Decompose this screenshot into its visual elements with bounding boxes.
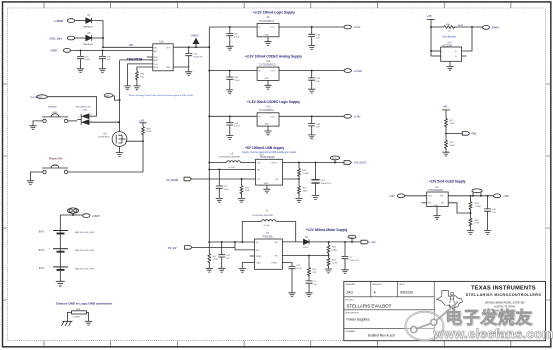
wire bbox=[92, 21, 104, 48]
svg-text:S-: S- bbox=[455, 56, 457, 58]
wire bbox=[60, 215, 73, 281]
diode D4 bbox=[303, 237, 309, 249]
svg-text:MBRA140: MBRA140 bbox=[83, 26, 94, 29]
node company text bbox=[466, 285, 542, 335]
svg-text:+1.8V: +1.8V bbox=[354, 115, 361, 119]
svg-text:100K: 100K bbox=[245, 190, 251, 192]
node PWR tp bbox=[348, 235, 356, 242]
wire bbox=[128, 64, 153, 86]
wire +5B net bbox=[102, 44, 153, 48]
diode D5A bbox=[82, 114, 96, 119]
battery BAT3 bbox=[39, 229, 94, 234]
svg-text:PS_SW: PS_SW bbox=[168, 247, 177, 250]
svg-text:SS12: SS12 bbox=[303, 247, 309, 249]
ground bbox=[239, 268, 246, 272]
ground bbox=[218, 268, 225, 272]
svg-text:1uF: 1uF bbox=[316, 127, 320, 129]
svg-text:1uF: 1uF bbox=[316, 37, 320, 39]
svg-text:TEXAS INSTRUMENTS: TEXAS INSTRUMENTS bbox=[471, 285, 536, 291]
diode D5B bbox=[81, 114, 93, 125]
svg-text:+VB: +VB bbox=[427, 15, 432, 18]
node title OLED bbox=[429, 179, 466, 183]
svg-text:100uF 6V: 100uF 6V bbox=[193, 56, 203, 58]
capacitor C56 bbox=[77, 50, 91, 68]
svg-text:TLV70033ADCQ: TLV70033ADCQ bbox=[259, 63, 276, 66]
svg-text:10uF 16V: 10uF 16V bbox=[350, 260, 360, 262]
ground bbox=[325, 269, 332, 273]
node title USB bbox=[245, 146, 284, 150]
wire bbox=[279, 70, 344, 72]
capacitor C59 bbox=[99, 50, 111, 68]
wire bbox=[267, 80, 269, 85]
ground bbox=[77, 69, 84, 73]
transistor Q3 bbox=[99, 132, 127, 147]
diode D8 bbox=[83, 33, 94, 46]
ground bbox=[442, 152, 449, 156]
svg-text:+15V 5mA OLED Supply: +15V 5mA OLED Supply bbox=[429, 179, 466, 183]
wire bbox=[449, 61, 451, 66]
ground bbox=[264, 131, 271, 135]
svg-text:SW: SW bbox=[428, 196, 431, 198]
node title bbox=[253, 11, 295, 15]
node SPKR out bbox=[482, 26, 500, 30]
node GND flag bbox=[104, 94, 119, 101]
wire bbox=[47, 97, 96, 117]
svg-text:+12V 350mA Motor Supply: +12V 350mA Motor Supply bbox=[306, 228, 348, 232]
ground bbox=[305, 293, 312, 297]
svg-text:+5B: +5B bbox=[129, 44, 134, 47]
node note bbox=[129, 94, 194, 97]
power +VB div bbox=[442, 105, 450, 118]
svg-text:REVISION: REVISION bbox=[372, 284, 382, 286]
svg-text:U14: U14 bbox=[260, 154, 265, 156]
wire bbox=[209, 168, 255, 170]
svg-text:200K: 200K bbox=[213, 259, 219, 261]
wire bbox=[137, 67, 153, 71]
battery BAT2 bbox=[39, 248, 94, 253]
svg-text:ILIM: ILIM bbox=[154, 67, 158, 69]
svg-text:VIN: VIN bbox=[257, 162, 261, 164]
svg-text:+3.3V 100mA CODEC Analog Suppl: +3.3V 100mA CODEC Analog Supply bbox=[245, 54, 302, 58]
op-amp U15 bbox=[441, 43, 462, 62]
svg-text:DESIGNER: DESIGNER bbox=[345, 284, 356, 286]
op-amp U3 bbox=[427, 187, 449, 207]
ground bbox=[185, 72, 192, 76]
node subtitle bbox=[242, 151, 297, 154]
resistor R6 bbox=[208, 241, 219, 268]
wire bbox=[250, 255, 255, 257]
power +VB bbox=[139, 120, 146, 127]
node +5V_HOST flag bbox=[344, 161, 367, 165]
node title bbox=[245, 54, 302, 58]
wire bbox=[267, 37, 269, 42]
svg-text:4.7uH: 4.7uH bbox=[229, 167, 235, 169]
capacitor C48 bbox=[308, 116, 321, 135]
svg-text:GND: GND bbox=[105, 96, 110, 98]
capacitor C7 bbox=[342, 242, 360, 270]
svg-text:DATE: DATE bbox=[399, 283, 405, 286]
resistor R12 bbox=[445, 118, 456, 127]
resistor R54 bbox=[469, 218, 480, 231]
svg-text:+VBAT: +VBAT bbox=[92, 215, 100, 218]
svg-text:When checking Power Flow; have: When checking Power Flow; have this befo… bbox=[129, 94, 194, 97]
voltage regulator U11 bbox=[257, 61, 279, 81]
node +12V in bbox=[389, 194, 427, 198]
wire bbox=[430, 50, 441, 52]
ground bbox=[312, 195, 320, 199]
svg-text:TPS61202DRC: TPS61202DRC bbox=[260, 157, 276, 159]
node +3.3V bbox=[344, 25, 361, 29]
resistor R60 bbox=[298, 179, 309, 198]
capacitor C65 bbox=[484, 196, 497, 231]
svg-text:GND: GND bbox=[264, 124, 269, 126]
svg-text:+1.8V 20mA CODEC Logic Supply: +1.8V 20mA CODEC Logic Supply bbox=[247, 100, 300, 104]
svg-text:PS_MODE: PS_MODE bbox=[167, 179, 179, 182]
node TI logo bbox=[436, 290, 462, 308]
svg-text:GND: GND bbox=[256, 262, 261, 264]
svg-text:GND: GND bbox=[264, 78, 269, 80]
node VBAT testpoint bbox=[67, 208, 78, 216]
svg-text:Power Supplies: Power Supplies bbox=[347, 318, 370, 322]
svg-text:Supply: Can be used during USB: Supply: Can be used during USB host/devi… bbox=[242, 151, 297, 154]
svg-text:U5A: U5A bbox=[83, 109, 88, 112]
ground bbox=[85, 321, 92, 325]
wire bbox=[75, 37, 86, 39]
svg-text:VLF4012AT-4R7M1R1: VLF4012AT-4R7M1R1 bbox=[219, 156, 242, 159]
svg-text:0.1uF: 0.1uF bbox=[234, 36, 240, 38]
node PS_MODE flag bbox=[167, 177, 192, 182]
ground bbox=[308, 135, 315, 139]
wire motor input bbox=[209, 241, 254, 243]
resistor R62 bbox=[135, 71, 144, 79]
svg-text:+VB: +VB bbox=[443, 105, 448, 108]
power +VB spk bbox=[427, 15, 435, 56]
svg-text:100uF 16V: 100uF 16V bbox=[321, 183, 332, 185]
wire gate bbox=[119, 60, 153, 132]
wire bbox=[31, 172, 43, 181]
wire bbox=[431, 55, 441, 57]
resistor R65 bbox=[240, 179, 251, 198]
resistor R53 bbox=[469, 196, 481, 210]
capacitor C18 bbox=[226, 116, 240, 135]
capacitor C61 bbox=[218, 242, 231, 268]
ground bbox=[56, 281, 65, 286]
svg-text:VOUT: VOUT bbox=[271, 162, 277, 164]
capacitor C63 bbox=[185, 47, 203, 67]
wire FB bbox=[283, 178, 300, 180]
svg-text:TSOP/PROP: TSOP/PROP bbox=[30, 97, 43, 99]
wire bbox=[68, 171, 143, 173]
svg-text:0.1uF: 0.1uF bbox=[296, 268, 302, 270]
svg-text:Dont Breathe: Dont Breathe bbox=[443, 36, 457, 39]
svg-text:VIN: VIN bbox=[440, 196, 444, 198]
svg-text:Chassis GND to Logic GND conne: Chassis GND to Logic GND connection bbox=[56, 301, 112, 305]
svg-text:BAT1: BAT1 bbox=[39, 267, 45, 270]
svg-text:SPKR+: SPKR+ bbox=[492, 27, 501, 30]
ground bbox=[226, 90, 233, 94]
svg-text:GND: GND bbox=[264, 34, 269, 36]
svg-text:1uF: 1uF bbox=[316, 81, 320, 83]
wire U10 output bbox=[173, 46, 209, 48]
wire bbox=[445, 126, 447, 140]
svg-text:+5V 1000mA USB Supply: +5V 1000mA USB Supply bbox=[245, 146, 284, 150]
svg-text:BAT-HLD-001-THM: BAT-HLD-001-THM bbox=[75, 231, 94, 234]
inductor L5 bbox=[472, 188, 482, 196]
diode D7 bbox=[83, 15, 94, 28]
svg-text:SSD A4060-1B: SSD A4060-1B bbox=[76, 105, 91, 108]
node TPS2052B label bbox=[127, 57, 153, 61]
wire bbox=[343, 162, 345, 164]
wire bbox=[279, 26, 344, 28]
svg-text:121K: 121K bbox=[474, 223, 480, 225]
voltage regulator U12 bbox=[257, 107, 279, 127]
node switch SW5 bbox=[42, 114, 68, 123]
wire FB path bbox=[448, 203, 471, 218]
op-amp U7 bbox=[255, 233, 283, 269]
svg-text:PB6: PB6 bbox=[472, 133, 477, 136]
wire bbox=[328, 253, 330, 258]
svg-text:U15: U15 bbox=[448, 43, 453, 45]
svg-text:GND: GND bbox=[166, 67, 171, 69]
svg-text:+3.3V 150mA Logic Supply: +3.3V 150mA Logic Supply bbox=[253, 11, 295, 15]
svg-text:BZZR: BZZR bbox=[458, 25, 464, 27]
ground bbox=[308, 46, 315, 50]
ground bbox=[29, 126, 36, 130]
node +1.8V bbox=[344, 114, 361, 118]
svg-text:U12: U12 bbox=[267, 107, 272, 109]
wire bbox=[279, 115, 344, 117]
svg-text:+VB: +VB bbox=[139, 120, 144, 123]
capacitor C66 bbox=[311, 163, 331, 196]
ground bbox=[288, 293, 295, 297]
wire bbox=[436, 207, 438, 216]
resistor R50 bbox=[444, 24, 455, 33]
wire U10 gnd pin bbox=[173, 67, 189, 72]
ground bbox=[308, 89, 315, 93]
capacitor C58 bbox=[308, 27, 321, 46]
inductor L2 bbox=[242, 210, 295, 242]
svg-text:100K: 100K bbox=[450, 123, 456, 125]
wire +5B bus bbox=[208, 27, 210, 242]
op-amp U10 bbox=[153, 41, 173, 71]
ground bbox=[216, 198, 223, 202]
wire bbox=[454, 25, 482, 28]
ground bbox=[263, 189, 270, 193]
svg-text:1.00M: 1.00M bbox=[475, 206, 481, 208]
resistor R58 bbox=[68, 309, 89, 321]
svg-text:+VBAT: +VBAT bbox=[50, 50, 58, 53]
svg-text:0.1uF: 0.1uF bbox=[85, 59, 91, 61]
ground bbox=[238, 198, 245, 202]
wire bbox=[209, 26, 257, 28]
node +12V flag bbox=[361, 240, 376, 244]
node chassis note bbox=[56, 301, 112, 305]
wire bbox=[136, 79, 138, 86]
wire bbox=[142, 134, 144, 172]
svg-text:FREQ: FREQ bbox=[256, 256, 262, 258]
svg-text:1uF: 1uF bbox=[107, 59, 111, 61]
wire bbox=[309, 241, 361, 243]
ground bbox=[226, 136, 233, 140]
capacitor C50 bbox=[226, 27, 240, 46]
wire bbox=[445, 148, 447, 152]
capacitor C62 bbox=[216, 169, 229, 198]
wire bbox=[267, 126, 269, 131]
wire bbox=[430, 26, 443, 28]
svg-text:0 OHM: 0 OHM bbox=[73, 316, 80, 318]
node beeper note bbox=[443, 36, 457, 39]
svg-text:BAT2: BAT2 bbox=[39, 249, 45, 252]
svg-text:STELLARIS EVALBOT: STELLARIS EVALBOT bbox=[347, 304, 392, 309]
node +VBAT bbox=[73, 214, 100, 218]
svg-text:www.elecfans.com: www.elecfans.com bbox=[432, 326, 553, 341]
node TSOP_PROP bbox=[30, 95, 48, 99]
ground bbox=[27, 181, 34, 185]
wire EN2 stub bbox=[149, 59, 153, 61]
wire bbox=[266, 185, 268, 189]
wire bbox=[75, 20, 86, 22]
ground bbox=[295, 198, 302, 202]
wire VOUT bbox=[283, 162, 344, 164]
ground bbox=[116, 153, 123, 157]
svg-text:+USB5B: +USB5B bbox=[54, 20, 64, 23]
node PS_SW flag bbox=[168, 246, 192, 251]
wire bbox=[71, 49, 153, 51]
ground bbox=[99, 69, 106, 73]
node Power Off label bbox=[49, 157, 62, 167]
svg-text:+3.3V: +3.3V bbox=[354, 25, 361, 29]
node TP10 bbox=[330, 156, 339, 163]
ground bbox=[264, 85, 271, 89]
ground bbox=[124, 86, 131, 90]
node +USB5B bbox=[54, 19, 75, 23]
svg-text:100K: 100K bbox=[146, 131, 152, 133]
wire SW out bbox=[282, 241, 303, 243]
capacitor C29 bbox=[226, 71, 240, 90]
svg-text:TS5P400: TS5P400 bbox=[48, 106, 58, 108]
wire bbox=[462, 55, 467, 57]
voltage regulator U6 bbox=[257, 17, 279, 37]
node +5VD_Main bbox=[49, 36, 75, 40]
svg-text:+12V: +12V bbox=[389, 195, 395, 198]
resistor R48 bbox=[142, 127, 152, 135]
svg-text:TLV70018DCQ: TLV70018DCQ bbox=[259, 110, 274, 112]
node TS5P400 label bbox=[48, 106, 59, 114]
op-amp U14 bbox=[256, 154, 283, 185]
wire SW to out bbox=[448, 195, 493, 197]
svg-text:2.2uF: 2.2uF bbox=[234, 80, 240, 82]
svg-text:10uF: 10uF bbox=[224, 189, 230, 191]
capacitor C28 bbox=[308, 71, 321, 90]
svg-text:108 WILD BASIN ROAD, SUITE 350: 108 WILD BASIN ROAD, SUITE 350 bbox=[485, 302, 525, 305]
capacitor C2 bbox=[306, 275, 318, 293]
ground bbox=[484, 231, 491, 235]
node title block fields bbox=[345, 283, 413, 337]
svg-text:COMP: COMP bbox=[271, 262, 278, 264]
svg-text:Power Off: Power Off bbox=[49, 157, 62, 161]
svg-text:JAG: JAG bbox=[347, 290, 354, 294]
wire COMP bbox=[282, 263, 292, 267]
svg-text:BAT-HLD-001-THM: BAT-HLD-001-THM bbox=[75, 249, 94, 252]
svg-text:1uF: 1uF bbox=[492, 212, 496, 214]
svg-text:+15V: +15V bbox=[503, 195, 509, 198]
resistor R66 bbox=[298, 163, 309, 180]
wire bbox=[242, 263, 254, 269]
node watermark bbox=[406, 302, 553, 342]
svg-text:电子发烧友: 电子发烧友 bbox=[445, 307, 533, 327]
power +VBUS bbox=[191, 35, 199, 48]
svg-text:+VBUS: +VBUS bbox=[191, 35, 199, 38]
svg-text:TPS61040DBV: TPS61040DBV bbox=[428, 190, 444, 192]
svg-text:VLF4012AT-4R7M1R1: VLF4012AT-4R7M1R1 bbox=[252, 214, 275, 217]
svg-text:180K: 180K bbox=[332, 250, 338, 252]
wire drain bbox=[126, 140, 144, 142]
svg-text:GND: GND bbox=[434, 205, 439, 207]
ground bbox=[264, 42, 271, 46]
capacitor C40 bbox=[289, 265, 303, 293]
ground bbox=[133, 86, 140, 90]
ground bbox=[341, 270, 348, 274]
ground bbox=[433, 215, 440, 219]
battery BAT1 bbox=[39, 266, 94, 271]
wire FB link bbox=[282, 255, 328, 257]
svg-text:PROJECT: PROJECT bbox=[345, 300, 355, 302]
svg-text:1uF: 1uF bbox=[226, 258, 230, 260]
resistor R51 bbox=[327, 242, 338, 253]
svg-text:+3.3VA: +3.3VA bbox=[354, 69, 363, 73]
node +3.3VA bbox=[344, 69, 362, 73]
svg-text:STELLARIS® MICROCONTROLLERS: STELLARIS® MICROCONTROLLERS bbox=[466, 293, 542, 297]
ground bbox=[446, 66, 453, 70]
wire bbox=[462, 27, 472, 51]
svg-text:2.2uF: 2.2uF bbox=[234, 126, 240, 128]
wire bbox=[192, 242, 255, 250]
svg-text:MBRA140: MBRA140 bbox=[83, 43, 94, 46]
svg-text:IRLML9301: IRLML9301 bbox=[99, 137, 111, 139]
ground chassis bbox=[61, 321, 72, 326]
node title bbox=[247, 100, 300, 104]
node title motor bbox=[306, 228, 348, 232]
wire bbox=[209, 70, 257, 72]
wire bbox=[209, 115, 257, 117]
wire bbox=[33, 121, 43, 126]
svg-text:+12V: +12V bbox=[370, 241, 376, 244]
wire bbox=[89, 121, 120, 123]
node title block grid bbox=[344, 281, 546, 340]
node +VBAT input bbox=[50, 49, 71, 53]
svg-text:100K: 100K bbox=[450, 145, 456, 147]
ground bbox=[206, 268, 213, 272]
ground bbox=[467, 231, 474, 235]
wire bbox=[191, 178, 255, 180]
wire bbox=[68, 120, 78, 122]
svg-text:1.00M: 1.00M bbox=[303, 173, 309, 175]
svg-text:+5V_HOST: +5V_HOST bbox=[354, 162, 367, 165]
resistor R67 bbox=[308, 256, 318, 276]
svg-text:GND: GND bbox=[264, 183, 269, 185]
svg-text:8/6/2010: 8/6/2010 bbox=[400, 290, 413, 294]
wire bbox=[119, 146, 121, 152]
node +15V out bbox=[494, 194, 510, 198]
svg-text:20.0K: 20.0K bbox=[332, 263, 338, 265]
node PB6 flag bbox=[446, 132, 477, 136]
wire bbox=[77, 117, 81, 119]
svg-text:SW: SW bbox=[275, 242, 278, 244]
svg-text:U10: U10 bbox=[160, 41, 165, 44]
svg-text:Evalbot Rev A.sch: Evalbot Rev A.sch bbox=[368, 333, 395, 337]
svg-text:+5VD_Main: +5VD_Main bbox=[49, 37, 63, 40]
svg-text:TPS61085: TPS61085 bbox=[262, 236, 273, 238]
